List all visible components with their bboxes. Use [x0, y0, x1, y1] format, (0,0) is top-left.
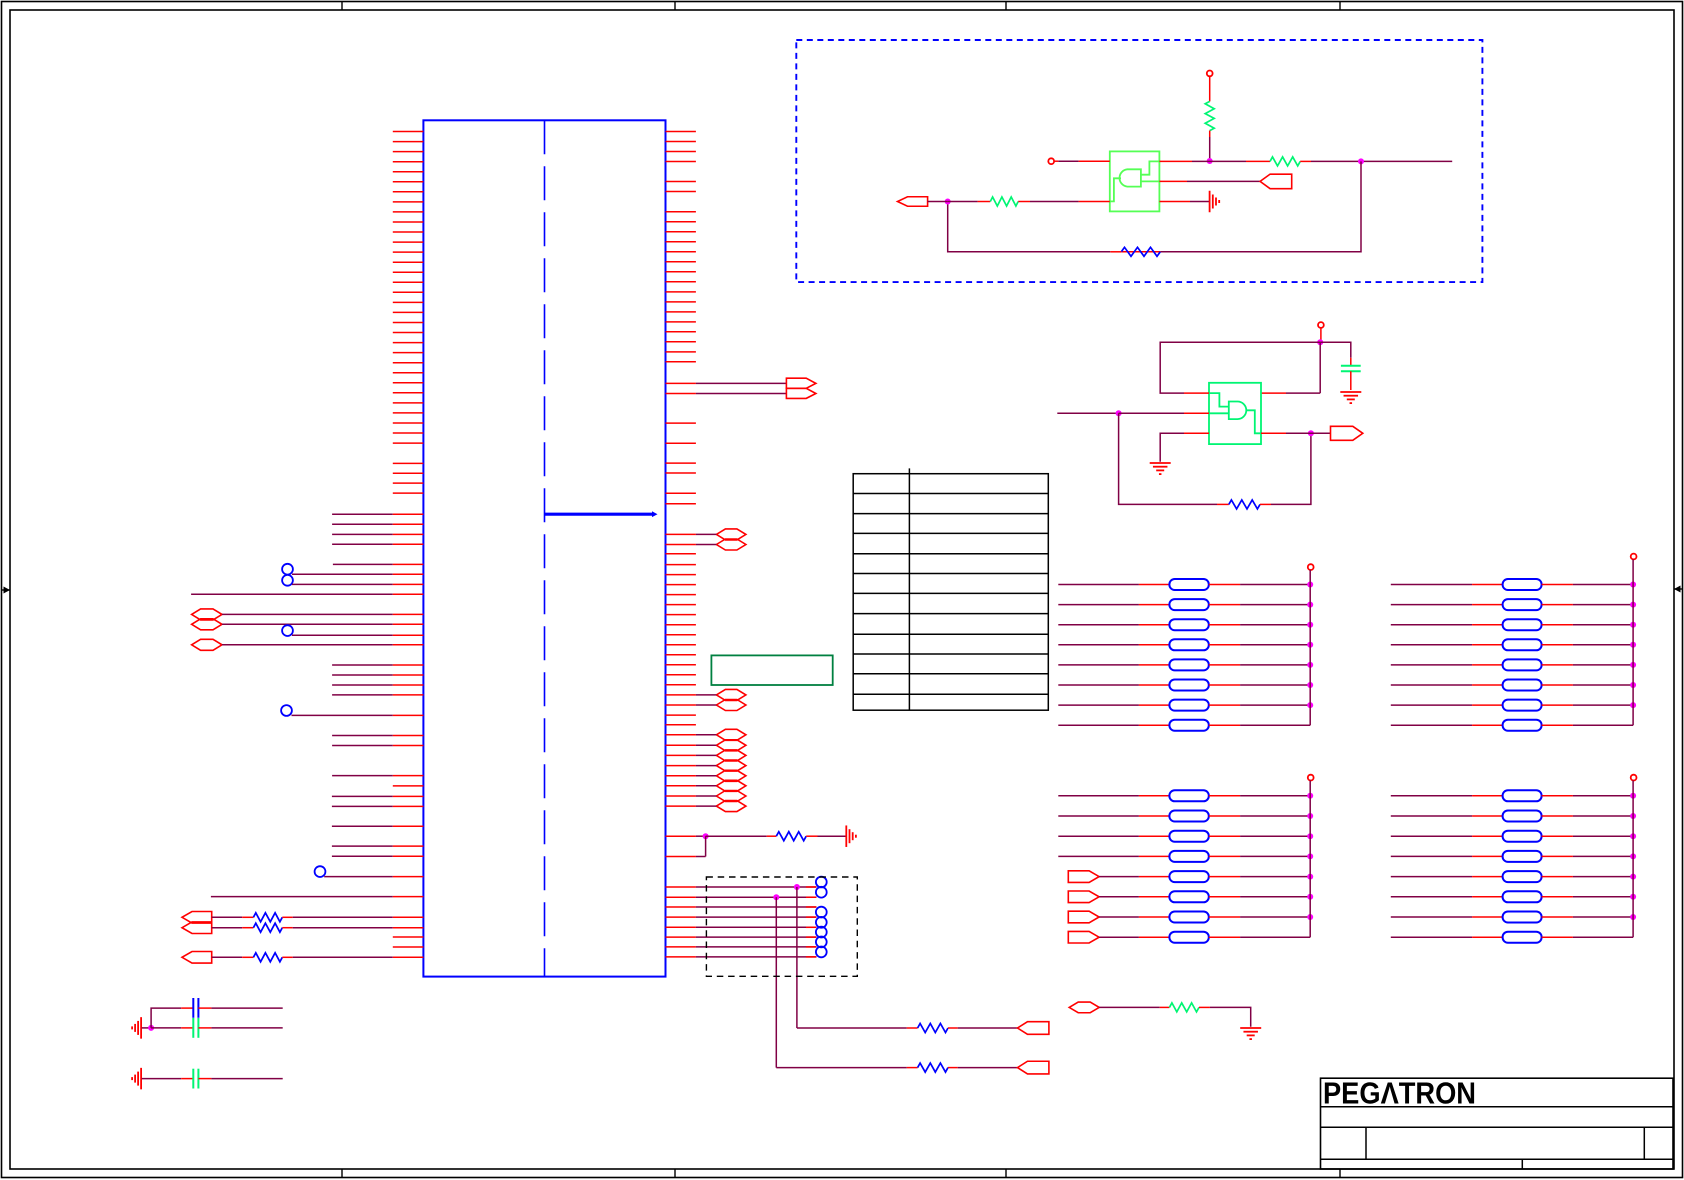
wire: [1573, 624, 1633, 626]
port: [1068, 871, 1099, 883]
svg-text:PEGΛTRON: PEGΛTRON: [1323, 1076, 1476, 1110]
pin: [393, 876, 424, 878]
wire: [1058, 624, 1139, 626]
port: [192, 609, 222, 620]
wire: [1573, 896, 1633, 898]
wire: [332, 745, 393, 747]
wire: [211, 1007, 282, 1009]
wire: [696, 886, 817, 888]
wire: [332, 845, 393, 847]
pin: [666, 393, 696, 395]
port: [716, 740, 746, 751]
pin: [666, 724, 696, 726]
pin: [393, 694, 424, 696]
port: [182, 952, 212, 964]
wire: [1573, 724, 1633, 726]
wire: [212, 956, 243, 958]
wire: [1391, 835, 1472, 837]
wire: [696, 704, 717, 706]
junction: [1630, 914, 1636, 920]
port: [192, 639, 222, 650]
junction: [1307, 662, 1313, 668]
wire: [332, 664, 393, 666]
wire: [1192, 160, 1246, 162]
wire: [1391, 604, 1472, 606]
wire: [696, 805, 717, 807]
pin: [393, 634, 424, 636]
pin: [1159, 180, 1187, 182]
junction: [1308, 430, 1314, 436]
wire: [1573, 876, 1633, 878]
junction: [1317, 339, 1323, 345]
wire: [696, 754, 717, 756]
pin: [393, 674, 424, 676]
resistor: [1139, 795, 1170, 797]
dashed group outline: [796, 40, 1482, 282]
pin: [393, 684, 424, 686]
resistor: [1472, 815, 1503, 817]
wire: [1240, 835, 1310, 837]
resistor: [1139, 724, 1170, 726]
wire: [1319, 342, 1321, 393]
wire: [1240, 704, 1310, 706]
wire: [696, 393, 787, 395]
wire: [1573, 855, 1633, 857]
wire: [1573, 815, 1633, 817]
wire: [948, 202, 1110, 252]
junction: [1630, 662, 1636, 668]
wire: [696, 946, 817, 948]
IC U1 body: [423, 120, 665, 976]
pin: [666, 754, 696, 756]
annotation box: [711, 655, 832, 685]
wire: [1573, 916, 1633, 918]
pin: [1159, 160, 1192, 162]
wire: [142, 1027, 151, 1029]
wire: [696, 956, 817, 958]
resistor feedback: [1217, 503, 1229, 505]
resistor: [242, 927, 253, 929]
port: [716, 791, 746, 802]
wire: [332, 775, 393, 777]
wire: [1320, 342, 1351, 358]
wire: [1240, 604, 1310, 606]
wire: [222, 644, 393, 646]
wire: [1099, 916, 1139, 918]
no-connect: [281, 705, 292, 716]
pin: [393, 927, 424, 929]
pin: [393, 956, 424, 958]
junction: [773, 894, 779, 900]
wire: [1058, 795, 1139, 797]
wire: [696, 734, 717, 736]
wire: [1058, 704, 1139, 706]
pin: [666, 694, 696, 696]
pin: [1159, 201, 1190, 203]
wire vertical: [775, 897, 777, 1067]
wire: [222, 623, 393, 625]
pin: [666, 714, 696, 716]
pin: [666, 533, 696, 535]
wire: [293, 916, 393, 918]
wire: [1391, 795, 1472, 797]
resistor: [1139, 644, 1170, 646]
port: [786, 378, 816, 388]
wire: [696, 835, 706, 837]
wire: [332, 694, 393, 696]
ground: [846, 825, 856, 847]
wire: [1573, 584, 1633, 586]
wire: [1240, 896, 1310, 898]
wire: [142, 1078, 182, 1080]
wire: [1391, 815, 1472, 817]
wire: [1058, 815, 1139, 817]
wire: [332, 684, 393, 686]
wire: [332, 825, 393, 827]
port: [1018, 1022, 1049, 1035]
wire: [1058, 724, 1139, 726]
pin: [1184, 412, 1209, 414]
wire: [212, 927, 243, 929]
port: [716, 689, 746, 700]
connector dashed outline: [706, 877, 857, 976]
pin: [666, 896, 696, 898]
wire: [696, 936, 817, 938]
port: [1068, 931, 1099, 943]
wire: [1240, 795, 1310, 797]
pin: [666, 544, 696, 546]
wire: [696, 856, 706, 858]
wire: [696, 765, 717, 767]
pin: [1261, 432, 1286, 434]
junction: [945, 199, 951, 205]
resistor: [1139, 684, 1170, 686]
wire: [696, 382, 787, 384]
junction: [1307, 622, 1313, 628]
resistor: [1139, 835, 1170, 837]
wire: [1391, 584, 1472, 586]
wire: [1391, 855, 1472, 857]
wire: [705, 836, 707, 856]
port: [716, 750, 746, 761]
pin: [666, 916, 696, 918]
wire: [211, 1078, 282, 1080]
pin: [393, 795, 424, 797]
pin: [393, 644, 424, 646]
resistor: [242, 916, 253, 918]
power node: [1631, 775, 1637, 781]
wire: [696, 544, 717, 546]
resistor: [1139, 896, 1170, 898]
no-connect: [282, 564, 293, 575]
wire: [1240, 684, 1310, 686]
no-connect: [315, 866, 326, 877]
junction: [1630, 582, 1636, 588]
pin: [393, 533, 424, 535]
resistor: [907, 1067, 918, 1069]
wire: [1240, 815, 1310, 817]
pin: [393, 936, 424, 938]
wire: [332, 513, 393, 515]
pin: [393, 916, 424, 918]
wire: [1058, 644, 1139, 646]
wire bus: [1632, 559, 1634, 725]
wire: [1119, 413, 1217, 504]
wire: [1573, 604, 1633, 606]
pin: [393, 543, 424, 545]
pin: [1079, 160, 1110, 162]
junction: [703, 833, 709, 839]
wire bus: [1632, 781, 1634, 938]
U1 right pin bank 2: [666, 212, 696, 312]
junction: [1207, 158, 1213, 164]
wire: [212, 916, 243, 918]
port: [716, 780, 746, 791]
junction: [148, 1025, 154, 1031]
resistor: [1472, 835, 1503, 837]
no-connect: [816, 877, 827, 888]
resistor: [1139, 664, 1170, 666]
pin: [393, 523, 424, 525]
pin: [666, 886, 696, 888]
port: [716, 760, 746, 771]
resistor: [1139, 815, 1170, 817]
power node: [1318, 322, 1324, 328]
pin: [666, 936, 696, 938]
pin: [666, 835, 696, 837]
no-connect: [816, 947, 827, 958]
pin: [393, 714, 424, 716]
junction: [1307, 874, 1313, 880]
IC U1 centerline: [544, 120, 546, 976]
wire: [948, 201, 978, 203]
wire: [191, 593, 393, 595]
junction: [1307, 702, 1313, 708]
wire bus: [1309, 570, 1311, 725]
wire: [1320, 328, 1322, 342]
resistor: [1472, 876, 1503, 878]
wire: [1187, 180, 1260, 182]
wire: [1240, 644, 1310, 646]
wire: [1190, 201, 1209, 203]
wire: [1573, 936, 1633, 938]
junction: [1630, 602, 1636, 608]
wire: [292, 573, 393, 575]
wire: [1240, 916, 1310, 918]
port: [182, 912, 212, 924]
wire: [1240, 724, 1310, 726]
resistor: [1472, 664, 1503, 666]
pin: [666, 765, 696, 767]
wire: [332, 795, 393, 797]
resistor: [1139, 916, 1170, 918]
wire: [1240, 584, 1310, 586]
wire: [1054, 160, 1058, 162]
wire: [696, 694, 717, 696]
junction: [1307, 853, 1313, 859]
wire: [776, 1067, 907, 1069]
pin: [1184, 432, 1209, 434]
wire: [332, 543, 393, 545]
U1 right pin bank 4: [666, 423, 696, 504]
resistor: [1139, 855, 1170, 857]
wire: [696, 533, 717, 535]
wire: [1391, 724, 1472, 726]
wire: [1391, 896, 1472, 898]
wire: [151, 1008, 181, 1028]
resistor: [1472, 624, 1503, 626]
wire: [1573, 835, 1633, 837]
pin: [393, 845, 424, 847]
pin: [666, 805, 696, 807]
pin: [666, 946, 696, 948]
wire: [958, 1027, 1018, 1029]
ground: [1210, 191, 1220, 213]
wire: [211, 896, 393, 898]
resistor: [1139, 704, 1170, 706]
wire: [332, 533, 393, 535]
wire: [332, 855, 393, 857]
wire: [1057, 412, 1118, 414]
ground: [132, 1068, 141, 1090]
junction: [1630, 894, 1636, 900]
wire: [1099, 896, 1139, 898]
wire: [1286, 432, 1331, 434]
wire: [332, 735, 393, 737]
wire: [1391, 936, 1472, 938]
wire: [1209, 76, 1211, 101]
no-connect: [816, 887, 827, 898]
pin: [666, 775, 696, 777]
capacitor C2: [181, 1027, 193, 1029]
resistor: [1472, 644, 1503, 646]
pin: [393, 573, 424, 575]
power node: [1308, 564, 1314, 570]
wire: [1210, 1007, 1251, 1026]
wire: [292, 634, 393, 636]
port: [192, 619, 222, 630]
resistor: [1472, 724, 1503, 726]
resistor R pullup: [1205, 101, 1214, 130]
resistor: [1139, 876, 1170, 878]
junction: [1307, 793, 1313, 799]
wire: [332, 805, 393, 807]
wire: [1240, 936, 1310, 938]
wire: [696, 795, 717, 797]
resistor feedback: [1121, 251, 1160, 253]
wire: [293, 927, 393, 929]
pin: [666, 553, 696, 555]
junction: [1630, 622, 1636, 628]
wire: [1240, 624, 1310, 626]
wire: [1573, 684, 1633, 686]
port: [716, 529, 746, 540]
junction: [1307, 682, 1313, 688]
U1 right pin bank 1: [666, 132, 696, 192]
junction: [1307, 914, 1313, 920]
pin: [666, 744, 696, 746]
junction: [1630, 853, 1636, 859]
resistor: [1139, 604, 1170, 606]
junction: [1630, 833, 1636, 839]
IC U1 bus arrow: [544, 511, 658, 517]
title block: [1321, 1078, 1674, 1169]
port: [898, 197, 928, 207]
wire: [1099, 1006, 1160, 1008]
junction: [1630, 793, 1636, 799]
capacitor C4: [1350, 358, 1352, 366]
wire: [1240, 876, 1310, 878]
junction: [1630, 874, 1636, 880]
port: [1018, 1061, 1049, 1074]
pin table: [853, 468, 1048, 710]
junction: [1307, 602, 1313, 608]
wire: [1573, 704, 1633, 706]
junction: [1630, 702, 1636, 708]
wire: [293, 956, 393, 958]
pin: [393, 735, 424, 737]
pin: [393, 775, 424, 777]
wire: [292, 583, 393, 585]
wire: [1391, 704, 1472, 706]
resistor: [1472, 704, 1503, 706]
pin: [393, 563, 424, 565]
pin: [666, 906, 696, 908]
pin: [666, 856, 696, 858]
port: [716, 539, 746, 550]
junction: [1630, 682, 1636, 688]
no-connect: [282, 625, 293, 636]
wire: [797, 1027, 907, 1029]
resistor: [1139, 584, 1170, 586]
resistor: [1246, 160, 1270, 162]
pin: [393, 825, 424, 827]
wire: [151, 1027, 181, 1029]
wire: [1271, 433, 1311, 504]
capacitor C1: [181, 1007, 193, 1009]
resistor: [1472, 795, 1503, 797]
wire: [1240, 855, 1310, 857]
wire: [1391, 624, 1472, 626]
junction: [1358, 158, 1364, 164]
wire: [1311, 160, 1452, 162]
wire: [1391, 684, 1472, 686]
pin: [393, 583, 424, 585]
U1 right pin bank 5: [666, 565, 696, 685]
ground: [1340, 392, 1361, 403]
resistor: [1139, 936, 1170, 938]
wire: [1099, 936, 1139, 938]
U1 left pin bank 2: [393, 463, 424, 493]
pin: [393, 805, 424, 807]
wire: [696, 775, 717, 777]
pin: [393, 623, 424, 625]
pin: [1079, 201, 1110, 203]
no-connect: [816, 907, 827, 918]
port: [716, 770, 746, 781]
capacitor C3: [181, 1078, 193, 1080]
wire: [1030, 201, 1079, 203]
resistor: [1472, 916, 1503, 918]
resistor: [242, 956, 253, 958]
resistor: [1139, 624, 1170, 626]
wire: [1099, 876, 1139, 878]
wire: [1160, 433, 1184, 461]
wire: [1160, 161, 1361, 251]
port: [1068, 891, 1099, 903]
pin: [666, 382, 696, 384]
pin: [1261, 392, 1286, 394]
